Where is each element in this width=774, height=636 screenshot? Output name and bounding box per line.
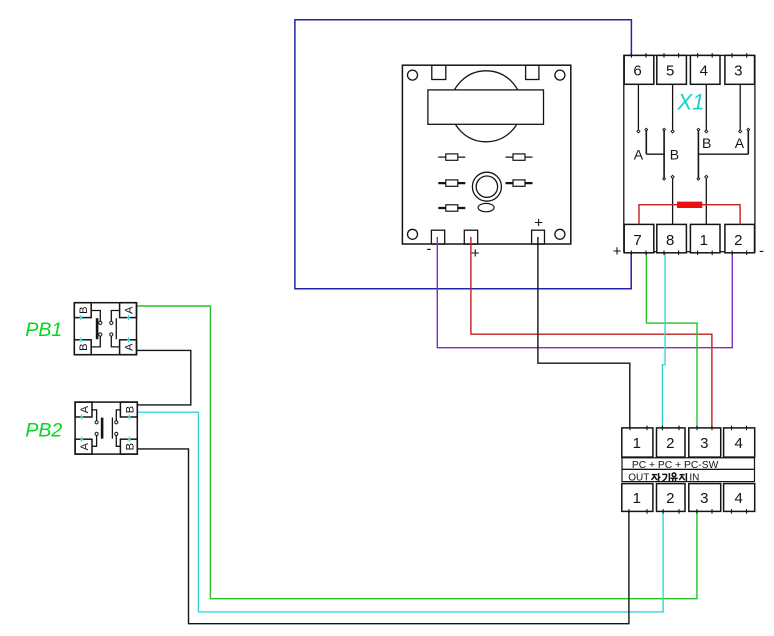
X1 contact bar A right bbox=[747, 130, 749, 154]
svg-text:2: 2 bbox=[666, 490, 674, 507]
PB2 contact point upper-right bbox=[115, 421, 118, 424]
X1 terminal box 6 bbox=[624, 55, 654, 84]
svg-text:A: A bbox=[735, 135, 745, 151]
svg-text:A: A bbox=[79, 442, 91, 450]
terminal strip bottom box 1 bbox=[622, 484, 653, 512]
PB1 contact point upper-left bbox=[99, 321, 102, 324]
svg-text:IN: IN bbox=[689, 473, 699, 484]
terminal strip top box 4 bbox=[724, 428, 755, 457]
terminal strip label band OUT/IN bbox=[622, 469, 755, 481]
X1 terminal box 4 bbox=[690, 55, 720, 84]
timer module board outline bbox=[402, 65, 570, 244]
PB1 outline bbox=[74, 303, 136, 355]
X1 contact bar B left bbox=[663, 130, 665, 178]
terminal strip bottom box 4 bbox=[724, 484, 755, 512]
X1 contact bar A left bbox=[645, 130, 647, 154]
svg-text:B: B bbox=[124, 406, 136, 413]
X1 contact stem from terminal 4 bbox=[705, 84, 707, 130]
terminal strip top box 1 ticks bbox=[629, 426, 631, 431]
svg-text:B: B bbox=[124, 443, 136, 450]
board mounting hole top-left bbox=[408, 70, 418, 80]
svg-text:+: + bbox=[471, 245, 480, 262]
svg-text:5: 5 bbox=[666, 63, 674, 80]
PB2 contact stub from top-left box bbox=[92, 410, 97, 421]
PB2 terminal box bottom-left (A) bbox=[75, 439, 92, 454]
svg-text:A: A bbox=[634, 147, 644, 163]
board top tab right bbox=[526, 65, 539, 79]
timer window rectangle bbox=[428, 90, 544, 124]
board bottom terminal tab 2 (+) bbox=[464, 230, 477, 244]
wire: cyan from PB2 upper B to terminal strip bottom box 2 bbox=[137, 412, 663, 612]
svg-text:PB2: PB2 bbox=[25, 420, 62, 442]
X1 contact bar B right bbox=[697, 130, 699, 178]
PB1 actuator bar right (open contact) bbox=[115, 318, 117, 339]
X1 contact point of terminal 3 bbox=[739, 130, 742, 133]
svg-text:1: 1 bbox=[700, 232, 708, 249]
wire: blue supply loop from X1 terminal 7 around timer board to X1 terminal 6 bbox=[295, 20, 632, 289]
svg-text:3: 3 bbox=[734, 63, 742, 80]
X1 contact stem from terminal 6 bbox=[637, 84, 639, 130]
terminal strip top box 4 ticks bbox=[731, 426, 733, 431]
PB1 contact stub from bottom-right box bbox=[111, 336, 119, 347]
terminal strip top box 3 ticks bbox=[696, 426, 698, 431]
wire: green from X1 terminal 7 to terminal strip top box 3 bbox=[646, 253, 697, 428]
X1 contact point of terminal 6 bbox=[637, 130, 640, 133]
X1 terminal box 2 bbox=[725, 224, 755, 252]
board mounting hole top-right bbox=[555, 70, 565, 80]
X1 contact stem from terminal 3 bbox=[739, 84, 741, 130]
timer dial circle bbox=[451, 71, 522, 142]
X1 terminal box 8 bbox=[657, 224, 687, 252]
X1 relay coil body bbox=[678, 202, 702, 207]
X1 terminal 1 bottom ticks bbox=[697, 251, 699, 256]
board bottom terminal tab 1 (-) bbox=[431, 230, 444, 244]
X1 coil lead right red bbox=[702, 205, 740, 225]
PB2 plug marker upper-left bbox=[80, 414, 83, 419]
PB1 contact point lower-left bbox=[99, 333, 102, 336]
terminal strip label band PC bbox=[622, 458, 755, 470]
PB2 actuator bar left (closed contact) bbox=[101, 418, 104, 439]
svg-text:B: B bbox=[78, 344, 90, 351]
PB1 plug marker lower-left bbox=[79, 337, 82, 342]
terminal strip korean text 자기유지 bbox=[651, 473, 686, 482]
resistor on board left row2 bbox=[438, 180, 465, 186]
X1 contact link A-B left bbox=[646, 153, 664, 155]
PB1 contact point upper-right bbox=[110, 321, 113, 324]
svg-text:2: 2 bbox=[666, 435, 674, 452]
svg-text:PB1: PB1 bbox=[25, 319, 62, 341]
svg-text:6: 6 bbox=[633, 63, 641, 80]
PB2 terminal box top-right (B) bbox=[120, 402, 137, 417]
PB1 plug marker upper-right bbox=[127, 315, 130, 320]
X1 contact point of terminal 5 bbox=[671, 130, 674, 133]
X1 terminal 2 bottom ticks bbox=[731, 251, 733, 256]
svg-text:7: 7 bbox=[633, 232, 641, 249]
X1 lower contact stem to terminal 8 bbox=[672, 178, 674, 224]
X1 terminal box 1 bbox=[690, 224, 720, 252]
PB2 actuator bar right (open contact) bbox=[111, 418, 113, 439]
trimmer knob inner circle bbox=[476, 176, 497, 197]
PB1 terminal box top-right (A) bbox=[120, 303, 137, 318]
PB1 contact stub from top-right box bbox=[111, 311, 119, 322]
PB2 outline bbox=[75, 402, 137, 454]
svg-text:4: 4 bbox=[700, 63, 708, 80]
PB2 contact stub from bottom-right box bbox=[116, 435, 120, 446]
X1 terminal box 7 bbox=[624, 224, 654, 252]
terminal strip top box 3 bbox=[689, 428, 721, 457]
PB1 contact stub from bottom-left box bbox=[91, 336, 100, 347]
PB1 plug marker lower-right bbox=[127, 337, 130, 342]
wire: black link PB1 lower A to PB2 upper B bbox=[136, 350, 190, 405]
wire: red from board tab2 (+) to terminal strip top box 3 right bbox=[471, 237, 712, 428]
X1 terminal 6 top ticks bbox=[630, 53, 632, 58]
PB1 contact point lower-right bbox=[110, 333, 113, 336]
PB1 terminal box top-left (B) bbox=[74, 303, 91, 318]
svg-text:X1: X1 bbox=[677, 90, 705, 115]
terminal strip top box 1 bbox=[622, 428, 653, 457]
PB2 contact stub from bottom-left box bbox=[92, 435, 97, 446]
resistor on board right row2 bbox=[506, 180, 533, 186]
wire: black from board tab3 (+) to terminal strip top box 1 bbox=[538, 237, 630, 428]
svg-text:1: 1 bbox=[633, 435, 641, 452]
svg-text:8: 8 bbox=[666, 232, 674, 249]
PB2 contact point upper-left bbox=[95, 421, 98, 424]
svg-text:OUT: OUT bbox=[628, 473, 649, 484]
svg-text:A: A bbox=[123, 343, 135, 351]
X1 terminal 4 top ticks bbox=[697, 53, 699, 58]
svg-text:2: 2 bbox=[734, 232, 742, 249]
PB2 terminal box top-left (A) bbox=[75, 402, 92, 417]
wire: purple from board tab1 (-) to X1 terminal 2 bbox=[437, 237, 732, 348]
X1 contact link B-A right bbox=[698, 153, 748, 155]
PB2 contact point lower-right bbox=[115, 432, 118, 435]
terminal strip top box 2 bbox=[657, 428, 686, 457]
X1 contact stem from terminal 5 bbox=[672, 84, 674, 130]
board bottom terminal tab 3 (+) bbox=[532, 230, 545, 244]
wire: cyan from X1 terminal 8 to terminal strip top box 2 bbox=[662, 253, 665, 428]
PB2 terminal box bottom-right (B) bbox=[120, 439, 137, 454]
X1 terminal 3 top ticks bbox=[731, 53, 733, 58]
terminal strip bottom box 2 ticks bbox=[662, 509, 664, 514]
wire: green from PB1 terminal A to terminal strip bottom box 3 bbox=[136, 306, 697, 599]
wire: black from PB2 lower B to terminal strip bottom box 1 bbox=[137, 449, 629, 624]
svg-text:4: 4 bbox=[734, 490, 742, 507]
X1 terminal box 3 bbox=[725, 55, 755, 84]
X1 lower contact point left bbox=[671, 175, 674, 178]
svg-text:+: + bbox=[534, 215, 543, 232]
PB2 contact stub from top-right box bbox=[116, 410, 120, 421]
svg-text:1: 1 bbox=[633, 490, 641, 507]
X1 coil lead left red bbox=[639, 205, 678, 225]
X1 contact point of terminal 4 bbox=[705, 130, 708, 133]
X1 terminal 8 bottom ticks bbox=[663, 251, 665, 256]
svg-text:3: 3 bbox=[700, 490, 708, 507]
PB1 plug marker upper-left bbox=[79, 315, 82, 320]
resistor on board left row3 bbox=[438, 205, 465, 211]
terminal strip bottom box 2 bbox=[657, 484, 686, 512]
X1 lower contact stem to terminal 1 bbox=[705, 178, 707, 224]
PB1 terminal box bottom-right (A) bbox=[120, 340, 137, 355]
PB2 plug marker upper-right bbox=[128, 414, 131, 419]
X1 lower contact point right bbox=[705, 175, 708, 178]
resistor on board right row1 bbox=[506, 154, 533, 160]
X1 socket outline bbox=[624, 55, 755, 251]
svg-text:4: 4 bbox=[734, 435, 742, 452]
PB2 plug marker lower-right bbox=[128, 437, 131, 442]
indicator ellipse below knob bbox=[478, 203, 494, 211]
PB2 contact point lower-left bbox=[95, 432, 98, 435]
resistor on board left row1 bbox=[438, 154, 465, 160]
board mounting hole bottom-right bbox=[555, 229, 565, 239]
svg-text:-: - bbox=[759, 243, 764, 260]
X1 terminal 7 bottom ticks bbox=[630, 251, 632, 256]
PB1 actuator bar left (closed contact) bbox=[96, 318, 99, 339]
PB1 terminal box bottom-left (B) bbox=[74, 340, 91, 355]
board mounting hole bottom-left bbox=[408, 229, 418, 239]
terminal strip bottom box 3 ticks bbox=[696, 509, 698, 514]
PB2 plug marker lower-left bbox=[80, 437, 83, 442]
svg-text:-: - bbox=[426, 241, 431, 258]
svg-text:B: B bbox=[702, 135, 711, 151]
X1 terminal box 5 bbox=[657, 55, 687, 84]
X1 terminal 5 top ticks bbox=[663, 53, 665, 58]
terminal strip top box 2 ticks bbox=[661, 426, 663, 431]
terminal strip bottom box 4 ticks bbox=[731, 509, 733, 514]
board top tab left bbox=[432, 65, 446, 79]
PB1 contact stub from top-left box bbox=[91, 311, 100, 322]
terminal strip bottom box 3 bbox=[689, 484, 721, 512]
terminal strip bottom box 1 ticks bbox=[628, 509, 630, 514]
svg-text:A: A bbox=[79, 405, 91, 413]
svg-text:+: + bbox=[613, 243, 622, 260]
svg-text:B: B bbox=[78, 306, 90, 313]
svg-text:B: B bbox=[670, 147, 679, 163]
svg-text:3: 3 bbox=[700, 435, 708, 452]
trimmer knob outer circle bbox=[472, 172, 501, 201]
svg-text:A: A bbox=[123, 306, 135, 314]
